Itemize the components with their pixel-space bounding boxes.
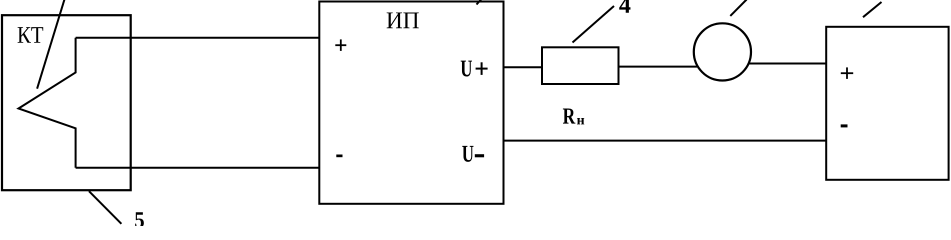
thermocouple junction (chevron symbol) [19,38,76,168]
leader line to milliammeter [730,0,746,16]
plus terminal of IP [335,39,346,51]
plus terminal of load box [841,67,853,79]
label 5 [135,212,144,228]
minus terminal of load box [841,124,848,127]
label U- [462,146,473,162]
wire: IP U+ to resistor Rn [504,66,543,68]
plus sign of U+ [476,62,488,75]
label U+ [461,61,472,77]
block KT (thermocouple block) [2,15,131,190]
subscript n of Rn [577,118,584,124]
load box (right block) [826,27,948,180]
leader line 3 stub [477,0,482,5]
milliammeter (circle instrument) [694,23,751,80]
wire: resistor Rn to milliammeter [619,66,698,68]
label Rn (value label) [563,109,575,124]
label 4 [619,0,630,13]
label IP [387,12,419,28]
label KT [18,27,44,43]
leader line to thermocouple junction [37,0,65,89]
leader line 5 [89,191,121,224]
block IP (measuring transducer U1) [319,2,503,204]
wire: thermocouple + to IP + [76,37,320,39]
resistor Rn [542,47,619,84]
leader line 4 [573,6,615,43]
leader line to load box [863,2,882,17]
minus terminal of IP [336,155,342,158]
wire: thermocouple - to IP - [76,167,320,169]
minus sign of U- [475,154,484,157]
wire: IP U- to load box minus [504,140,827,142]
wire: milliammeter to load box plus [749,63,827,65]
